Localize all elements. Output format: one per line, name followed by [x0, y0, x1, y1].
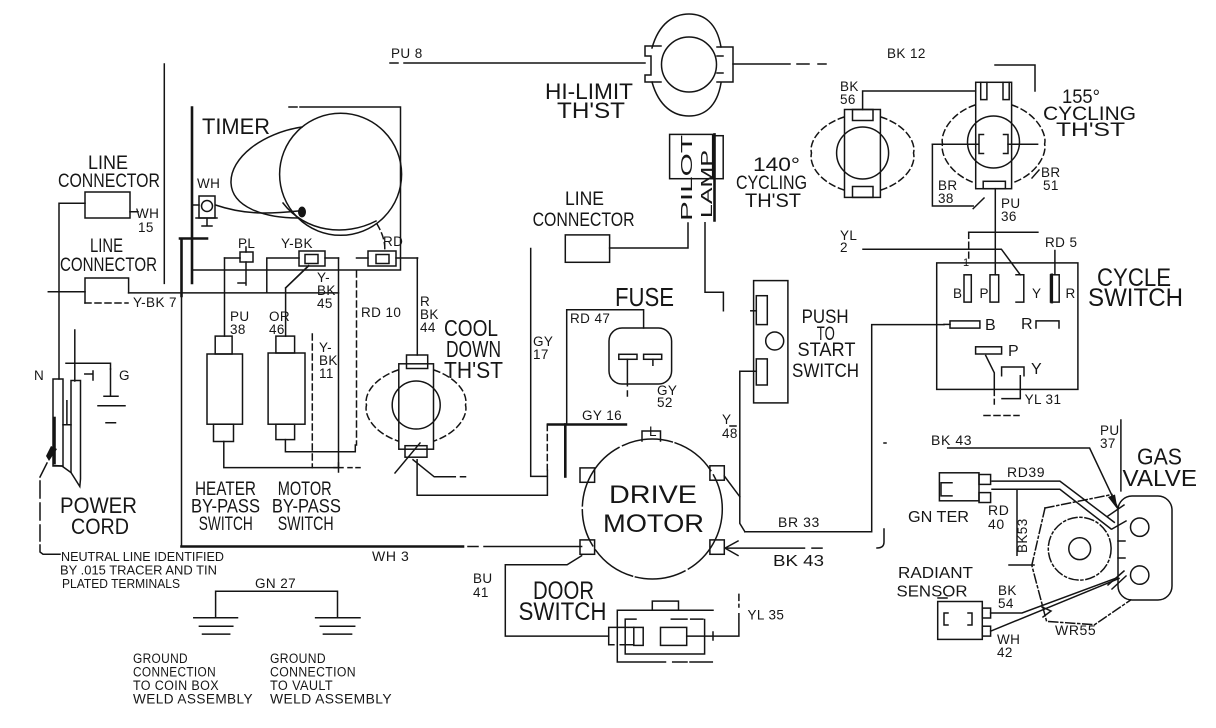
svg-text:37: 37 [1100, 436, 1116, 451]
svg-text:TH'ST: TH'ST [557, 98, 625, 123]
svg-text:40: 40 [988, 516, 1005, 532]
wire PU 38 [225, 258, 250, 337]
svg-text:SWITCH: SWITCH [278, 514, 334, 535]
wire Y-BK 7 [129, 258, 339, 293]
wire RD 47 [567, 310, 644, 425]
svg-text:Y: Y [1032, 286, 1041, 301]
cycle switch [937, 257, 1183, 416]
heater by-pass switch [191, 336, 360, 535]
wire BR 38 [932, 144, 984, 208]
wire GY 17 [531, 249, 554, 477]
svg-text:SWITCH: SWITCH [199, 514, 253, 535]
svg-text:SWITCH: SWITCH [792, 361, 859, 382]
wire GY 16 [547, 408, 626, 477]
radiant sensor [897, 565, 991, 639]
contact B [944, 323, 950, 325]
power cord [34, 203, 224, 591]
svg-text:TH'ST: TH'ST [444, 357, 503, 383]
svg-text:N: N [34, 368, 44, 383]
svg-text:48: 48 [722, 426, 738, 441]
svg-text:WH 3: WH 3 [372, 548, 409, 564]
svg-text:START: START [798, 340, 856, 361]
wire WH 3 [182, 547, 582, 565]
wire WH 42 / WR 55 [991, 579, 1119, 661]
contact P [976, 347, 1002, 354]
svg-text:CONNECTOR: CONNECTOR [533, 210, 635, 231]
wire WH 15 (vertical net) [163, 64, 165, 283]
svg-text:BR 33: BR 33 [778, 514, 820, 530]
svg-text:MOTOR: MOTOR [603, 510, 704, 538]
svg-text:RADIANT: RADIANT [898, 565, 973, 582]
svg-text:BK53: BK53 [1015, 518, 1030, 553]
gas valve [1032, 444, 1197, 625]
pilot lamp [670, 134, 724, 310]
line connector 1 [58, 153, 160, 235]
svg-text:CONNECTOR: CONNECTOR [58, 171, 160, 192]
svg-text:54: 54 [998, 596, 1014, 611]
svg-text:38: 38 [938, 191, 954, 206]
svg-text:BY .015 TRACER AND TIN: BY .015 TRACER AND TIN [60, 564, 217, 578]
svg-text:SWITCH: SWITCH [519, 598, 607, 626]
switch enclosure box [180, 239, 207, 547]
svg-text:YL 35: YL 35 [748, 608, 785, 623]
svg-text:SWITCH: SWITCH [1088, 284, 1183, 312]
140 deg cycling thermostat [736, 110, 914, 213]
svg-text:Y: Y [1031, 361, 1042, 378]
wire BR 33 [745, 325, 944, 532]
svg-text:44: 44 [420, 320, 436, 335]
svg-text:P: P [980, 286, 989, 301]
svg-text:2: 2 [840, 240, 848, 255]
svg-text:YL 31: YL 31 [1025, 392, 1062, 407]
hi-limit thermostat [545, 14, 733, 123]
svg-text:Y-BK 7: Y-BK 7 [133, 295, 177, 310]
wire pilot lamp to push-to-start [705, 223, 723, 311]
svg-text:NEUTRAL LINE IDENTIFIED: NEUTRAL LINE IDENTIFIED [61, 550, 224, 564]
svg-text:BK 43: BK 43 [773, 553, 824, 570]
svg-text:PU 8: PU 8 [391, 46, 423, 61]
node J (splice) [877, 443, 886, 548]
svg-text:SENSOR: SENSOR [897, 584, 968, 601]
contact Y [1002, 367, 1024, 376]
svg-text:11: 11 [319, 366, 334, 381]
svg-text:FUSE: FUSE [615, 282, 674, 312]
drive motor [580, 424, 724, 579]
ground symbol (coin box) [194, 618, 238, 634]
svg-text:CORD: CORD [71, 514, 129, 539]
wire BK 12 [733, 46, 1035, 91]
svg-text:LINE: LINE [90, 236, 123, 257]
svg-text:Y: Y [722, 412, 731, 427]
wire RD 39 [992, 464, 1114, 529]
svg-text:RD 10: RD 10 [361, 305, 401, 320]
svg-text:GN TER: GN TER [908, 509, 969, 526]
svg-text:52: 52 [657, 395, 673, 410]
wire BK 43 (motor) [725, 541, 824, 570]
svg-text:51: 51 [1043, 178, 1059, 193]
wire RD 5 [1045, 235, 1077, 275]
fuse F1 [567, 282, 678, 425]
label BR 51 [1032, 165, 1061, 193]
wire R BK 44 [417, 258, 439, 355]
line connector 2 [48, 236, 177, 310]
connector GN TER [908, 473, 991, 526]
wire BU 41 [473, 556, 609, 636]
svg-text:WH: WH [197, 176, 220, 191]
svg-text:15: 15 [138, 220, 154, 235]
svg-text:R: R [1021, 316, 1033, 333]
svg-text:WR55: WR55 [1055, 622, 1096, 638]
timer cam [280, 113, 402, 235]
svg-text:CONNECTOR: CONNECTOR [60, 255, 157, 276]
wire BK 43 (gas valve) [931, 432, 1118, 510]
wire YL 2 [840, 228, 1038, 275]
svg-text:56: 56 [840, 92, 856, 107]
ground symbol (power cord) [104, 369, 118, 396]
svg-text:PLATED TERMINALS: PLATED TERMINALS [62, 577, 180, 591]
ground connection wires GN 27 [133, 576, 392, 707]
push to start switch [740, 281, 859, 497]
svg-text:L: L [649, 424, 657, 439]
wire BK 56 [840, 79, 976, 110]
wire Y-BK 11 [312, 334, 338, 468]
svg-text:B: B [985, 317, 996, 334]
cool down thermostat [366, 315, 503, 473]
junction Y-BK 45 / by-pass wire [334, 463, 360, 472]
wire Y-BK 45 [317, 258, 339, 468]
wire RD 10 [357, 271, 402, 445]
wire RD 40 / BK 53 [988, 489, 1034, 565]
svg-text:RD39: RD39 [1007, 464, 1045, 480]
wire from cool down th'st (bottom) [413, 460, 466, 477]
wire Y 48 [722, 412, 745, 532]
svg-text:41: 41 [473, 585, 489, 600]
wire BK 54 [991, 578, 1118, 617]
svg-text:LAMP: LAMP [699, 150, 716, 218]
wire PU 36 [995, 189, 1020, 275]
motor by-pass switch [268, 336, 355, 535]
svg-text:42: 42 [997, 645, 1013, 660]
svg-text:17: 17 [533, 347, 549, 362]
svg-text:DRIVE: DRIVE [609, 481, 697, 509]
wire PU 8 [390, 46, 645, 63]
svg-text:VALVE: VALVE [1123, 465, 1198, 491]
svg-text:45: 45 [317, 296, 333, 311]
line connector 3 [533, 189, 688, 262]
svg-text:Y-BK: Y-BK [281, 236, 313, 251]
svg-text:TH'ST: TH'ST [1056, 120, 1126, 141]
wire PU 37 [1100, 420, 1121, 491]
155 deg cycling thermostat [932, 82, 1136, 188]
svg-text:G: G [119, 368, 130, 383]
svg-text:PILOT: PILOT [679, 135, 696, 221]
svg-text:R: R [1066, 286, 1076, 301]
svg-text:WH: WH [136, 206, 159, 221]
timer [192, 107, 418, 288]
svg-text:GN 27: GN 27 [255, 576, 296, 591]
svg-text:RD: RD [383, 234, 403, 249]
svg-text:BU: BU [473, 571, 493, 586]
svg-text:TIMER: TIMER [202, 114, 270, 139]
ground symbol (vault) [316, 618, 360, 634]
svg-text:36: 36 [1001, 209, 1017, 224]
svg-text:1: 1 [963, 257, 969, 269]
svg-text:RD 5: RD 5 [1045, 235, 1077, 250]
svg-text:LINE: LINE [565, 189, 604, 210]
svg-text:WELD ASSEMBLY: WELD ASSEMBLY [133, 692, 253, 707]
svg-text:46: 46 [269, 322, 285, 337]
svg-text:BK 43: BK 43 [931, 432, 972, 448]
door switch [519, 577, 785, 662]
svg-text:38: 38 [230, 322, 246, 337]
svg-text:BK 12: BK 12 [887, 46, 926, 61]
svg-text:GY 16: GY 16 [582, 408, 622, 423]
svg-text:WELD ASSEMBLY: WELD ASSEMBLY [270, 692, 392, 707]
svg-text:P: P [1008, 343, 1019, 360]
svg-text:RD 47: RD 47 [570, 311, 610, 326]
wire OR 46 [269, 266, 309, 338]
svg-text:B: B [953, 286, 962, 301]
svg-text:TH'ST: TH'ST [745, 191, 801, 212]
